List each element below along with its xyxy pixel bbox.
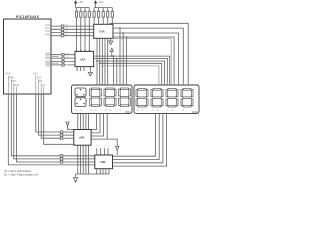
resistor RN1b bbox=[80, 8, 82, 52]
wire MCU pin to U4 row3 bbox=[41, 94, 60, 138]
svg-text:RB6: RB6 bbox=[9, 76, 14, 79]
U1 right pin labels RB0-RB5 bbox=[46, 54, 51, 68]
power arrow T1 bbox=[66, 122, 74, 130]
DIS1 digit 4 bbox=[119, 88, 131, 107]
wire RA1 to U3 bbox=[51, 28, 93, 30]
svg-text:RA0: RA0 bbox=[46, 24, 51, 27]
resistor RN2a bbox=[93, 8, 95, 25]
DIS1 special digit dots bbox=[76, 89, 85, 104]
driver U4 box bbox=[74, 130, 91, 146]
segment bus wire L5 bbox=[102, 66, 159, 84]
power arrow T2 bbox=[116, 146, 119, 155]
svg-text:DIS2: DIS2 bbox=[192, 110, 198, 114]
U4 bottom pins bbox=[78, 145, 89, 174]
resistor R5 bbox=[62, 54, 64, 56]
DIS1 bottom wires to U4 top bbox=[78, 113, 89, 129]
svg-text:RA5: RA5 bbox=[15, 84, 20, 87]
resistor R1 bbox=[61, 25, 64, 27]
top-right bus wire Re bbox=[113, 39, 171, 85]
wire RB0 to U2 bbox=[51, 54, 75, 56]
bus drop wire L2 to DIS1 bbox=[116, 58, 118, 87]
wire MCU pin to U4 row4 bbox=[44, 94, 74, 144]
resistor R4 bbox=[61, 35, 64, 37]
ground rail bbox=[76, 173, 110, 175]
resistor RN1a bbox=[75, 8, 77, 52]
resistor RN2c bbox=[102, 8, 104, 25]
resistor R6 bbox=[62, 57, 64, 59]
U4 bottom pin micro labels bbox=[77, 146, 89, 148]
segment bus wire L4 bbox=[100, 63, 162, 84]
DIS2 bottom micro labels bbox=[137, 109, 185, 111]
U5 right wire to DIS2 pin1 bbox=[113, 113, 156, 156]
display DIS2 box bbox=[134, 85, 199, 113]
svg-text:U3A: U3A bbox=[99, 30, 105, 34]
U3 bottom pin e wire to DIS1 bbox=[107, 38, 109, 86]
svg-text:OS2: OS2 bbox=[37, 76, 42, 79]
svg-text:+5V: +5V bbox=[78, 0, 83, 4]
power +5V P1 bbox=[74, 1, 77, 8]
svg-text:S1 = left 4-digit display: S1 = left 4-digit display bbox=[4, 169, 32, 173]
wire RB1 stub bbox=[51, 55, 58, 57]
wire MCU pin to U5 row2 bbox=[14, 94, 60, 159]
resistor value micro labels group B bbox=[66, 54, 69, 65]
driver U5 box bbox=[95, 155, 113, 169]
wire RA2 to U3 bbox=[51, 32, 93, 34]
DIS2 digit 1 bbox=[136, 89, 148, 108]
DIS1 digit 2 bbox=[90, 88, 102, 107]
U2 top pin micro labels bbox=[76, 46, 90, 48]
U1 bottom-left pin ticks bbox=[8, 76, 16, 95]
top-right bus wire Rc bbox=[113, 33, 179, 84]
microcontroller U1 PIC16F84A box bbox=[4, 19, 52, 94]
U5 top stubs bbox=[97, 148, 108, 155]
DIS2 digit 4 bbox=[181, 89, 193, 108]
wire MCU pin to U4 row2 bbox=[39, 94, 61, 135]
resistor R9 bbox=[60, 131, 74, 133]
wire RB2 to U2 bbox=[51, 57, 75, 59]
svg-text:+5V: +5V bbox=[98, 0, 103, 4]
svg-text:RA1: RA1 bbox=[46, 27, 51, 30]
U2 bottom stub b bbox=[80, 67, 82, 72]
DIS2 top arrows bbox=[158, 85, 189, 87]
U5 top stub micro labels bbox=[96, 145, 108, 147]
U3 ground G2 bbox=[109, 38, 113, 44]
driver U2 box bbox=[75, 51, 94, 66]
DIS1 bottom wires to U4 right bbox=[91, 113, 104, 136]
U1 right pin labels RA0-RA3 bbox=[46, 24, 51, 37]
bus drop wire L1 to DIS1 bbox=[113, 55, 115, 86]
DIS2 top pin micro labels bbox=[158, 82, 189, 84]
resistor R7 bbox=[62, 60, 64, 62]
top-right bus wire Rb bbox=[113, 28, 183, 84]
U5 right wire to DIS2 pin4 bbox=[113, 113, 167, 166]
resistor R3 bbox=[61, 31, 64, 33]
DIS1 top pin micro labels bbox=[96, 82, 127, 84]
svg-text:S2 = right 4-digit display uni: S2 = right 4-digit display unit bbox=[4, 173, 38, 177]
svg-text:OS1: OS1 bbox=[33, 73, 38, 76]
U3 bottom pin c wire to DIS1 bbox=[101, 38, 103, 86]
svg-text:U5B: U5B bbox=[100, 160, 106, 164]
resistor bank RN1 rail bbox=[76, 7, 90, 9]
U2 bottom stub a bbox=[76, 67, 78, 72]
DIS2 digit 3 bbox=[166, 89, 178, 108]
DIS1 special digit lower square bbox=[75, 98, 86, 107]
svg-text:U2A: U2A bbox=[80, 58, 86, 62]
wire MCU pin to U5 row3 bbox=[17, 94, 61, 162]
resistor R10 bbox=[60, 134, 74, 136]
svg-text:RA3: RA3 bbox=[46, 33, 51, 36]
svg-text:RB2: RB2 bbox=[46, 58, 51, 60]
U3 bottom pin d wire to DIS1 bbox=[104, 38, 106, 86]
wire RA3 to U3 bbox=[51, 35, 93, 37]
segment bus wire L1 bbox=[94, 56, 170, 84]
U2 bottom stub c bbox=[83, 67, 85, 72]
wire MCU pin to U5 row4 bbox=[8, 94, 95, 165]
resistor RN1d bbox=[88, 8, 90, 52]
U5 right wire to DIS2 pin3 bbox=[113, 113, 163, 162]
svg-text:MC: MC bbox=[39, 80, 43, 83]
svg-text:RA2: RA2 bbox=[46, 30, 51, 33]
wire RB5 to U2 bbox=[51, 64, 75, 66]
DIS1 bottom micro labels bbox=[76, 109, 122, 111]
U3 bottom pin micro labels bbox=[96, 40, 108, 42]
wire MCU pin to U5 row1 bbox=[11, 94, 60, 156]
resistor R14 bbox=[60, 161, 95, 163]
resistor bank RN2 rail bbox=[94, 7, 112, 9]
top-right bus wire Ra bbox=[110, 23, 188, 84]
U5 bottom pins bbox=[97, 169, 109, 174]
power +5V P2 bbox=[94, 1, 97, 8]
wire RB4 stub bbox=[51, 62, 58, 64]
ground G3 bbox=[73, 174, 77, 182]
U1 bottom-right pin labels bbox=[33, 73, 46, 87]
U3 bottom pin a wire to DIS1 bbox=[96, 38, 98, 86]
DIS1 common wire to T2 bbox=[91, 113, 117, 146]
svg-text:RB5: RB5 bbox=[46, 66, 51, 68]
power arrow P3 bbox=[110, 48, 113, 57]
segment bus wire L3 bbox=[97, 61, 165, 84]
bus drop wire Rd to DIS1 bbox=[126, 36, 128, 86]
display DIS1 box bbox=[72, 85, 133, 113]
wire MCU pin to U4 row1 bbox=[36, 94, 60, 132]
bus drop wire Rb to DIS1 bbox=[119, 27, 121, 86]
DIS1 special digit upper square bbox=[75, 88, 86, 97]
U2 ground G1 bbox=[88, 67, 92, 76]
resistor R2 bbox=[61, 28, 64, 30]
svg-text:U4B: U4B bbox=[79, 136, 85, 140]
wire RB3 to U2 bbox=[51, 61, 75, 63]
resistor R8 bbox=[62, 64, 64, 66]
top-right bus wire Rd bbox=[113, 37, 174, 84]
decoder U3 box bbox=[94, 24, 113, 38]
resistor RN2d bbox=[107, 8, 109, 25]
U1 bottom-left pin labels bbox=[6, 73, 20, 87]
segment bus wire L2 bbox=[94, 58, 168, 84]
wire RA0 to U3 bbox=[51, 25, 93, 27]
resistor value micro labels top row bbox=[75, 9, 113, 11]
U5 right wire to DIS2 pin2 bbox=[113, 113, 160, 159]
resistor value micro labels group A bbox=[66, 25, 69, 35]
DIS2 digit 2 bbox=[151, 89, 163, 108]
U1 bottom-right pin ticks bbox=[36, 76, 44, 95]
svg-text:PIC16F84XX: PIC16F84XX bbox=[16, 15, 40, 19]
bus drop wire Rc to DIS1 bbox=[122, 32, 124, 86]
resistor R13 bbox=[60, 158, 95, 160]
U3 bottom pin b wire to DIS1 bbox=[99, 38, 101, 86]
resistor RN1c bbox=[84, 8, 86, 52]
svg-text:RB7: RB7 bbox=[12, 80, 17, 83]
resistor R12 bbox=[60, 155, 95, 157]
svg-text:RA4: RA4 bbox=[6, 73, 11, 76]
DIS1 digit 3 bbox=[104, 88, 116, 107]
resistor RN2e bbox=[111, 8, 113, 25]
svg-text:DIS1: DIS1 bbox=[125, 110, 131, 114]
resistor R11 bbox=[60, 137, 74, 139]
resistor RN2b bbox=[98, 8, 100, 25]
